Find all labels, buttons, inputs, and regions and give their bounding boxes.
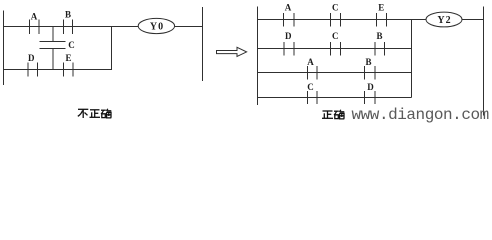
svg-text:B: B [365,57,371,67]
svg-text:A: A [31,12,38,22]
svg-text:D: D [28,53,35,63]
svg-text:D: D [285,31,292,41]
svg-text:Y2: Y2 [437,15,451,26]
svg-text:B: B [65,10,71,20]
svg-text:D: D [367,82,374,92]
svg-text:C: C [332,3,339,13]
svg-text:C: C [307,82,314,92]
svg-text:A: A [307,57,314,67]
svg-text:C: C [332,31,339,41]
svg-text:www.diangon.com: www.diangon.com [352,106,489,124]
svg-text:A: A [285,3,292,13]
svg-text:B: B [376,31,382,41]
svg-text:E: E [378,3,384,13]
svg-text:Y0: Y0 [150,22,164,33]
svg-text:E: E [65,53,71,63]
svg-text:C: C [68,40,75,50]
